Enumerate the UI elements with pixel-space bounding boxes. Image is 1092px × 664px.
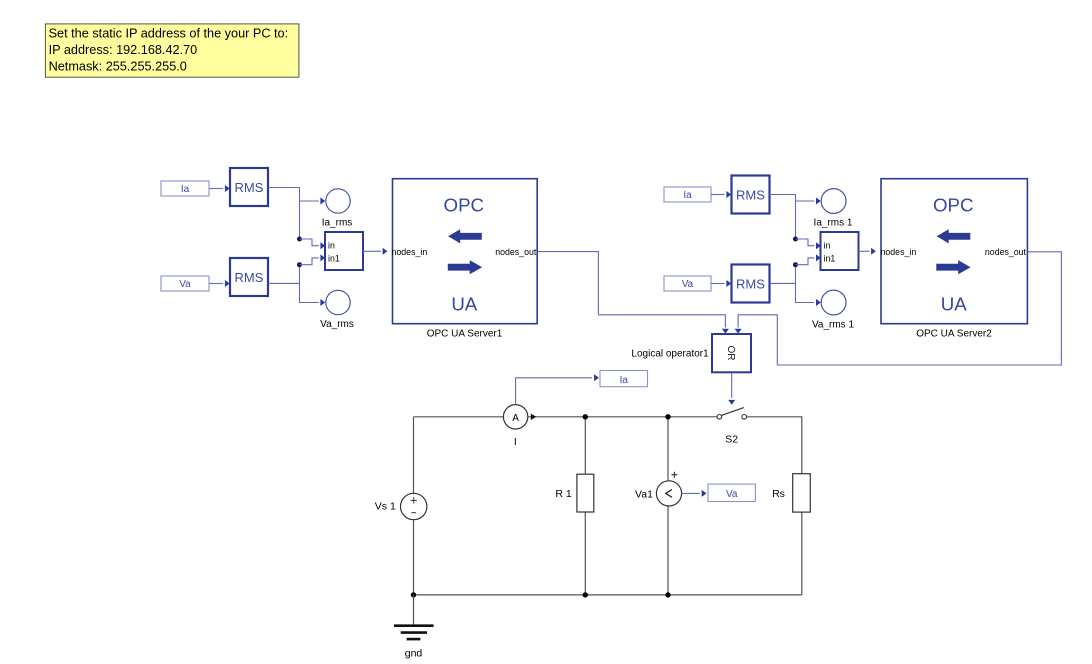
svg-text:UA: UA xyxy=(941,294,967,315)
wire tag Ia to RMS3 xyxy=(711,191,731,198)
wire OR output to switch S2 gate xyxy=(728,374,735,405)
svg-text:OPC: OPC xyxy=(933,195,974,216)
resistor R1 xyxy=(577,474,594,512)
wire OPC UA Server1 nodes_out to OR input 1 xyxy=(537,252,729,334)
junction top rail at R1 xyxy=(583,414,588,419)
svg-text:RMS: RMS xyxy=(736,276,765,291)
tag Ia (left from) xyxy=(161,181,209,196)
voltmeter Va1 xyxy=(656,472,681,506)
junction bottom rail at Va1 xyxy=(665,592,670,597)
wire ground stub xyxy=(413,595,415,625)
RMS block (right Ia) xyxy=(732,176,770,214)
svg-text:Ia_rms 1: Ia_rms 1 xyxy=(814,218,853,229)
wire RMS1 output to branch node xyxy=(268,188,300,240)
wire RMS4 output to branch node and Va_rms1 scope xyxy=(770,265,821,306)
svg-text:nodes_in: nodes_in xyxy=(392,247,428,257)
svg-text:UA: UA xyxy=(451,294,477,315)
scope Ia_rms xyxy=(322,189,353,229)
svg-text:nodes_out: nodes_out xyxy=(495,247,537,257)
svg-text:Va_rms: Va_rms xyxy=(320,319,354,330)
wire top rail (ammeter to switch left contact) xyxy=(528,416,717,418)
svg-text:OPC UA Server1: OPC UA Server1 xyxy=(427,329,503,340)
node junction (RMS4 out) xyxy=(793,262,798,267)
resistor Rs xyxy=(793,474,811,512)
wire ammeter measurement to tag Ia xyxy=(516,374,599,404)
wire branch to Ia_rms1 scope xyxy=(796,198,821,205)
wire tag Va to RMS2 xyxy=(210,280,230,287)
junction bottom rail at R1 xyxy=(583,592,588,597)
svg-text:nodes_in: nodes_in xyxy=(881,247,917,257)
wire node to mux2 in xyxy=(796,239,821,249)
wire left branch (rail to Vs1, Vs1 to bottom rail) xyxy=(413,417,415,595)
svg-text:Va1: Va1 xyxy=(635,488,653,500)
svg-text:OPC: OPC xyxy=(444,195,485,216)
scope Ia_rms1 xyxy=(814,189,853,229)
wire mux2 to OPC UA Server2 xyxy=(859,248,876,255)
svg-text:R 1: R 1 xyxy=(555,488,572,500)
svg-text:RMS: RMS xyxy=(235,180,264,195)
node junction (RMS2 out) xyxy=(297,262,302,267)
wire Va1 branch xyxy=(667,417,669,595)
svg-text:in: in xyxy=(824,241,831,251)
wire top rail left (Vs1 corner to ammeter) xyxy=(414,416,504,418)
logic block OR (Logical operator1) xyxy=(712,334,751,372)
junction bottom rail at Vs1 xyxy=(411,592,416,597)
svg-text:OPC UA Server2: OPC UA Server2 xyxy=(916,329,992,340)
svg-text:Vs 1: Vs 1 xyxy=(375,501,396,513)
wire branch to Ia_rms scope xyxy=(300,198,326,205)
wire node to mux in xyxy=(300,239,326,249)
tag Va (left from) xyxy=(161,276,209,291)
svg-text:in1: in1 xyxy=(328,254,340,264)
svg-text:Va: Va xyxy=(726,489,738,500)
wire voltmeter measurement to tag Va xyxy=(682,490,707,497)
tag Va (right from) xyxy=(664,276,711,291)
svg-text:Ia_rms: Ia_rms xyxy=(322,218,353,229)
RMS block (left Ia) xyxy=(230,168,268,206)
svg-text:Va: Va xyxy=(682,279,694,290)
note annotation xyxy=(45,24,299,77)
source Vs1 xyxy=(401,493,427,519)
svg-text:RMS: RMS xyxy=(235,270,264,285)
svg-text:IP address: 192.168.42.70: IP address: 192.168.42.70 xyxy=(49,43,198,57)
svg-text:RMS: RMS xyxy=(736,187,765,202)
wire RMS2 output to branch node and Va_rms scope xyxy=(268,265,325,306)
svg-text:Va: Va xyxy=(179,279,191,290)
svg-text:Va_rms 1: Va_rms 1 xyxy=(812,320,854,331)
mux block (left) xyxy=(325,232,363,270)
wire top rail right (switch right contact to Rs branch) xyxy=(746,417,801,474)
switch S2 xyxy=(717,408,746,420)
wire Rs bottom xyxy=(801,512,803,595)
junction top rail at Va1 xyxy=(665,414,670,419)
svg-text:in: in xyxy=(328,241,335,251)
ammeter I xyxy=(503,405,536,429)
mux block (right) xyxy=(821,232,859,270)
tag Ia (goto, circuit) xyxy=(600,371,648,387)
svg-text:S2: S2 xyxy=(725,434,738,446)
svg-text:in1: in1 xyxy=(824,254,836,264)
svg-text:A: A xyxy=(512,413,519,424)
RMS block (left Va) xyxy=(230,258,268,296)
scope Va_rms xyxy=(320,290,354,330)
svg-text:Ia: Ia xyxy=(620,375,629,386)
op block OPC UA Server2 xyxy=(881,179,1028,324)
node junction (RMS1 out) xyxy=(297,237,302,242)
tag Va (goto, circuit) xyxy=(708,484,755,501)
svg-text:Netmask: 255.255.255.0: Netmask: 255.255.255.0 xyxy=(49,60,187,74)
wire node to mux2 in1 xyxy=(796,254,821,264)
wire OPC UA Server2 nodes_out to OR input 2 xyxy=(735,252,1062,365)
op block OPC UA Server1 xyxy=(392,179,538,324)
tag Ia (right from) xyxy=(664,187,711,202)
svg-text:Ia: Ia xyxy=(181,184,190,195)
wire R1 branch xyxy=(584,417,586,595)
scope Va_rms1 xyxy=(812,290,854,330)
svg-text:I: I xyxy=(514,436,517,448)
svg-text:nodes_out: nodes_out xyxy=(985,247,1027,257)
wire bottom rail xyxy=(414,594,802,596)
ground xyxy=(394,626,434,639)
svg-text:Logical operator1: Logical operator1 xyxy=(631,348,709,359)
wire RMS3 output to branch node xyxy=(770,195,796,240)
svg-text:Ia: Ia xyxy=(683,190,692,201)
svg-text:Rs: Rs xyxy=(772,488,785,500)
svg-text:Set the static IP address of t: Set the static IP address of the your PC… xyxy=(49,27,289,41)
wire tag Ia to RMS1 xyxy=(210,185,230,192)
wire mux to OPC UA Server1 xyxy=(363,248,387,255)
svg-text:OR: OR xyxy=(725,346,736,361)
node junction (RMS3 out) xyxy=(793,237,798,242)
svg-text:gnd: gnd xyxy=(405,648,423,660)
wire node to mux in1 xyxy=(300,254,326,264)
wire tag Va to RMS4 xyxy=(711,280,731,287)
RMS block (right Va) xyxy=(732,265,770,303)
